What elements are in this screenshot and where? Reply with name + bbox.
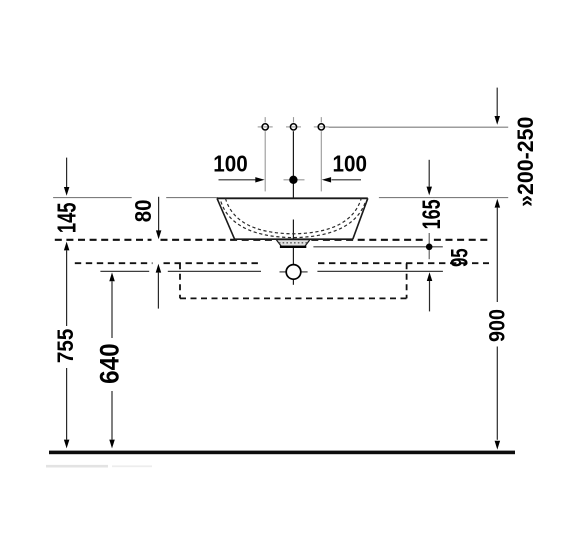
svg-text:755: 755 — [52, 329, 78, 364]
svg-text:165: 165 — [417, 199, 446, 229]
svg-text:145: 145 — [52, 202, 81, 233]
svg-text:100: 100 — [213, 150, 247, 176]
svg-text:95: 95 — [447, 248, 474, 267]
svg-text:80: 80 — [130, 199, 157, 222]
svg-text:900: 900 — [485, 309, 509, 342]
svg-text:640: 640 — [95, 343, 124, 384]
svg-text:»200-250: »200-250 — [513, 117, 538, 207]
svg-text:100: 100 — [332, 150, 366, 176]
